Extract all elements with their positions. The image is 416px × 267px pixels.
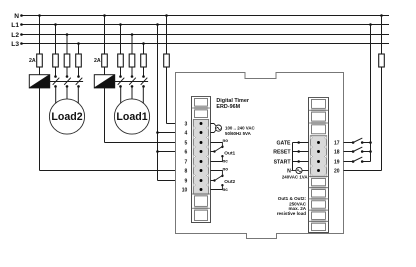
wire L1 to pins 4-6-9	[156, 23, 159, 26]
svg-text:20: 20	[334, 168, 340, 174]
svg-text:Digital Timer: Digital Timer	[216, 98, 249, 104]
contact K1-3	[77, 75, 80, 78]
wire L1 drop right	[369, 23, 372, 26]
terminal strip right (pins 17-20)	[309, 98, 329, 233]
fuse F21	[118, 54, 124, 67]
fuse F22	[129, 54, 135, 67]
wire contactor K1 to pin 8	[39, 88, 41, 171]
svg-text:ERD-96M: ERD-96M	[216, 104, 240, 110]
svg-text:GATE: GATE	[276, 140, 291, 146]
wire drop L3 group 1	[78, 44, 80, 55]
svg-text:50/60Hz 5VA: 50/60Hz 5VA	[225, 131, 252, 136]
fuse F7 (pin 20 supply)	[379, 54, 385, 67]
contact K2-2	[131, 75, 134, 78]
mechanical linkage K1	[50, 81, 83, 83]
wire fuse to contact group 2-1	[120, 67, 122, 77]
svg-text:L1: L1	[11, 22, 19, 29]
wire switch 17 to L1 bus	[362, 142, 370, 144]
svg-text:N: N	[287, 168, 291, 174]
wire contact to Load1	[131, 86, 133, 99]
wire fuse to contact group 1-1	[55, 67, 57, 77]
wire drop L2 group 1	[66, 35, 68, 55]
svg-text:7: 7	[185, 159, 188, 165]
svg-text:no: no	[223, 138, 229, 143]
svg-text:Load2: Load2	[51, 111, 82, 123]
wire RESET to pin 18	[293, 151, 309, 153]
wire fuse to contact group 1-3	[78, 67, 80, 77]
contact K1-2	[66, 75, 69, 78]
fuse 2A F1	[37, 54, 43, 67]
svg-text:resistive load: resistive load	[277, 211, 307, 216]
bus line L2	[22, 34, 390, 36]
load Load2	[49, 99, 84, 134]
wire drop L1 group 1	[55, 25, 57, 55]
external switch GATE (pin 17)	[344, 142, 354, 144]
wire fuse to contactor K1	[39, 67, 41, 75]
wire contact to Load2	[66, 86, 68, 99]
svg-text:18: 18	[334, 149, 340, 155]
wire fuse to pin 20	[381, 67, 383, 171]
load Load1	[114, 99, 149, 134]
fuse F3 (pin3 supply)	[164, 54, 170, 67]
svg-text:4: 4	[185, 130, 188, 136]
svg-text:5: 5	[185, 140, 188, 146]
mechanical linkage K2	[115, 81, 148, 83]
svg-text:2A: 2A	[29, 58, 36, 64]
fuse F11	[53, 54, 59, 67]
external switch RESET (pin 18)	[344, 151, 354, 153]
svg-text:2A: 2A	[94, 58, 101, 64]
fuse 2A F2	[102, 54, 108, 67]
svg-text:3: 3	[185, 121, 188, 127]
AC supply symbol (pins 3-4)	[211, 124, 217, 133]
wire N drop load group 1	[39, 16, 41, 55]
wire switch 19 to L1 bus	[362, 161, 370, 163]
wire contact to Load1	[120, 86, 122, 103]
wire GATE to pin 17	[293, 142, 309, 144]
svg-text:240VAC 1VA: 240VAC 1VA	[282, 175, 309, 180]
bus line N	[22, 15, 390, 17]
contact K2-3	[142, 75, 145, 78]
svg-text:9: 9	[185, 178, 188, 184]
wire switch 18 to L1 bus	[362, 151, 370, 153]
wire contact to Load2	[77, 86, 79, 103]
bus line L3	[22, 43, 390, 45]
svg-text:nc: nc	[223, 187, 229, 192]
AC coil symbol 240VAC	[291, 170, 296, 172]
svg-text:Load1: Load1	[116, 111, 147, 123]
contact K2-1	[119, 75, 122, 78]
svg-text:10: 10	[182, 187, 188, 193]
svg-text:Out2: Out2	[224, 179, 235, 185]
svg-text:nc: nc	[223, 158, 229, 163]
wire fuse to contact group 2-3	[143, 67, 145, 77]
fuse F12	[64, 54, 70, 67]
wire N drop load group 2	[104, 16, 106, 55]
svg-text:N: N	[14, 13, 19, 20]
svg-text:no: no	[223, 166, 229, 171]
wire contactor K2 to pin 5	[104, 88, 106, 143]
svg-text:Out1: Out1	[224, 151, 235, 157]
svg-text:8: 8	[185, 168, 188, 174]
svg-text:L3: L3	[11, 41, 19, 48]
timer ERD-96M enclosure outline	[176, 73, 344, 239]
wire drop L3 group 2	[143, 44, 145, 55]
wire drop L1 group 2	[120, 25, 122, 55]
svg-text:17: 17	[334, 140, 340, 146]
wire fuse to contactor K2	[104, 67, 106, 75]
contactor coil K2	[94, 75, 114, 88]
terminal strip left (pins 3-10)	[192, 97, 211, 223]
bus line L1	[22, 24, 390, 26]
wire N drop to pin 3	[165, 14, 168, 17]
contact K1-1	[54, 75, 57, 78]
wire fuse to contact group 2-2	[131, 67, 133, 77]
wire contact to Load2	[55, 86, 57, 103]
wire drop L2 group 2	[131, 35, 133, 55]
external switch START (pin 19)	[344, 161, 354, 163]
fuse F23	[141, 54, 147, 67]
svg-text:6: 6	[185, 149, 188, 155]
wire input common bus	[292, 143, 294, 171]
svg-text:RESET: RESET	[273, 149, 291, 155]
wire N drop right	[380, 14, 383, 17]
contactor coil K1	[29, 75, 49, 88]
svg-text:19: 19	[334, 159, 340, 165]
wire contact to Load1	[142, 86, 144, 103]
wire START to pin 19	[293, 161, 309, 163]
fuse F13	[76, 54, 82, 67]
wire fuse to contact group 1-2	[66, 67, 68, 77]
svg-text:100 .. 240 VAC: 100 .. 240 VAC	[225, 126, 256, 131]
relay contact Out2 (pins 8-9-10)	[211, 171, 223, 190]
relay contact Out1 (pins 5-6-7)	[211, 143, 223, 162]
svg-text:L2: L2	[11, 32, 19, 39]
wire fuse to pin 3	[166, 67, 168, 124]
svg-text:START: START	[274, 159, 292, 165]
